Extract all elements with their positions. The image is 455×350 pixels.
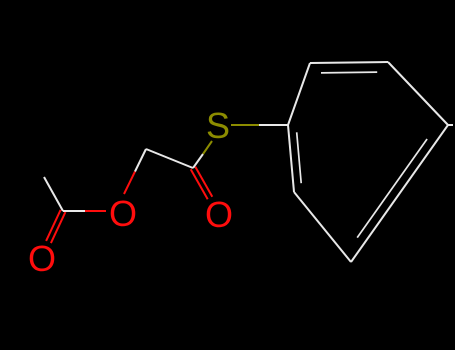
para methyl stub xyxy=(448,124,453,126)
C3-C1 bond xyxy=(146,149,193,168)
S-ring bond white half xyxy=(259,124,288,126)
benzene ring edge TR-R xyxy=(388,62,448,125)
O4-C3 bond white half xyxy=(135,149,146,172)
benzene ring edge R-B xyxy=(351,125,448,262)
benzene ring edge L-TL xyxy=(288,63,310,125)
C5-O4 ester bond red half xyxy=(85,210,106,212)
C1-S bond olive half xyxy=(203,141,212,154)
C1=O2 double bond xyxy=(191,169,208,199)
aromatic inner line top xyxy=(321,71,377,74)
O4-C3 bond red half xyxy=(124,172,135,195)
wire xyxy=(44,62,453,262)
C5=O6 double bond xyxy=(46,210,61,241)
svg-text:O: O xyxy=(109,193,137,234)
benzene ring edge TL-TR xyxy=(310,62,388,63)
svg-text:S: S xyxy=(206,105,230,146)
aromatic inner line right xyxy=(357,139,427,238)
methyl C7 to carbonyl C5 bond xyxy=(44,177,63,211)
C1-S bond white half xyxy=(193,154,203,168)
benzene ring edge BL-L xyxy=(288,125,294,192)
svg-text:O: O xyxy=(28,238,56,279)
C5-O4 ester bond white half xyxy=(63,210,85,212)
benzene ring edge B-BL xyxy=(294,192,351,262)
S-ring bond olive half xyxy=(231,124,259,126)
svg-text:O: O xyxy=(205,194,233,235)
aromatic inner line left xyxy=(297,132,302,183)
